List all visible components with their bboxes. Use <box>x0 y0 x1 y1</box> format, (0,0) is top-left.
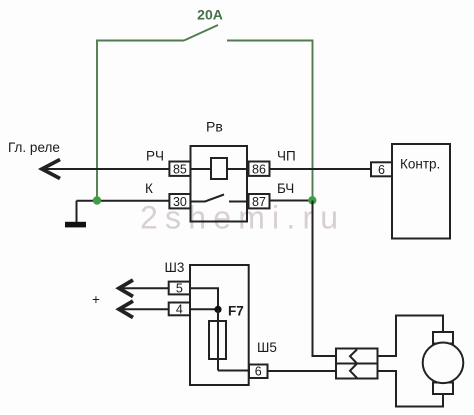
relay coil <box>211 158 227 179</box>
pin 6 of Ш5 <box>249 365 268 379</box>
wire F7 to pin 6 of Ш5 <box>218 370 249 372</box>
pin 5 <box>169 282 190 295</box>
svg-text:+: + <box>92 292 100 307</box>
fuse F7 <box>209 321 226 359</box>
svg-text:Рв: Рв <box>206 119 223 135</box>
wire Ш5 pin6 to pump connector <box>268 370 337 372</box>
wire 86 to Контр pin 6 <box>270 168 372 170</box>
pin 4 <box>169 303 190 316</box>
pin 85 <box>169 162 190 176</box>
wire connector to motor negative loop <box>378 371 444 407</box>
svg-text:6: 6 <box>255 365 262 379</box>
svg-text:30: 30 <box>173 195 187 209</box>
svg-text:ЧП: ЧП <box>277 149 296 164</box>
svg-text:Ш5: Ш5 <box>257 340 277 355</box>
svg-text:85: 85 <box>173 163 187 177</box>
node: green junction right <box>308 196 316 204</box>
pin 30 <box>169 194 190 208</box>
svg-text:86: 86 <box>252 163 266 177</box>
wire К from ground to pin 30 <box>77 200 170 202</box>
svg-text:20А: 20А <box>197 7 223 23</box>
node F7 junction <box>214 306 221 313</box>
svg-text:Гл. реле: Гл. реле <box>8 140 60 155</box>
controller Контр. box <box>392 144 450 239</box>
wire: coil feed inside relay <box>191 168 248 170</box>
svg-text:Контр.: Контр. <box>400 157 440 172</box>
relay Рв box <box>191 146 248 222</box>
pin 86 <box>249 162 270 176</box>
svg-text:F7: F7 <box>228 304 244 319</box>
wire through fuse F7 <box>217 309 219 370</box>
relay contact 30-87 <box>191 195 248 202</box>
wire node to pump connector <box>313 201 337 357</box>
ground <box>76 201 78 222</box>
svg-text:2shemi.ru: 2shemi.ru <box>140 200 345 236</box>
svg-text:БЧ: БЧ <box>277 181 294 196</box>
svg-text:4: 4 <box>176 302 183 316</box>
pin 6 of Контр. <box>371 162 392 176</box>
motor M washer pump <box>423 332 464 394</box>
wire: green feed, left vertical <box>97 41 184 201</box>
svg-text:К: К <box>145 181 153 196</box>
node: green junction left <box>93 196 101 204</box>
wire pin4 to F7 junction <box>190 308 218 310</box>
wire to pin 5 with arrow (+ feed) <box>119 287 169 289</box>
connector X1 (pump plug) <box>336 349 378 379</box>
connector Ш3 housing box <box>190 265 249 385</box>
wire 87 to node <box>270 200 313 202</box>
svg-text:Ш3: Ш3 <box>165 260 185 275</box>
wire РЧ with arrow to Гл. реле <box>42 168 169 170</box>
fuse-switch SA 20A blade <box>184 25 218 41</box>
wire: green feed, top right segment <box>227 41 313 201</box>
wire pin5 to F7 junction <box>190 288 218 309</box>
pin 87 <box>249 194 270 208</box>
svg-text:87: 87 <box>252 195 266 209</box>
svg-text:5: 5 <box>176 282 183 296</box>
wire to pin 4 with arrow (+ feed) <box>119 308 169 310</box>
svg-text:6: 6 <box>378 163 385 177</box>
svg-text:РЧ: РЧ <box>146 149 164 164</box>
wire connector to motor positive loop <box>378 316 444 357</box>
